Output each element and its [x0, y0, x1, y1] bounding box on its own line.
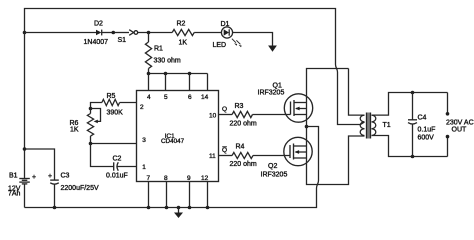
wire node branch right and down to ground bus — [307, 127, 319, 181]
transformer T1 core — [366, 113, 370, 139]
resistor R2 1K — [172, 21, 194, 47]
svg-text:C2: C2 — [113, 156, 122, 163]
svg-text:+: + — [32, 174, 36, 181]
wire IC pin 7 stub — [148, 182, 150, 208]
capacitor C3 2200uF/25V — [48, 173, 99, 210]
svg-text:D2: D2 — [94, 21, 103, 28]
node C3 tap on left rail — [23, 147, 27, 151]
svg-text:LED: LED — [213, 42, 227, 49]
svg-text:1: 1 — [142, 164, 146, 171]
wire secondary top to output top rail — [372, 93, 448, 116]
svg-text:220 ohm: 220 ohm — [230, 121, 257, 128]
svg-text:S1: S1 — [118, 37, 127, 44]
capacitor C4 0.1uF 600V — [408, 91, 435, 159]
wire IC pin 8 stub — [166, 182, 168, 208]
wire pin 10 line to R3 — [219, 114, 233, 116]
svg-text:4: 4 — [147, 94, 151, 101]
wire hop over Q2 source line — [317, 181, 319, 189]
resistor R1 330 ohm — [145, 33, 181, 74]
svg-text:IRF3205: IRF3205 — [258, 90, 285, 97]
svg-text:2200uF/25V: 2200uF/25V — [61, 185, 99, 192]
svg-text:C3: C3 — [61, 173, 70, 180]
svg-text:3: 3 — [142, 137, 146, 144]
wire LED to down arrow — [233, 33, 273, 46]
svg-text:C4: C4 — [418, 115, 427, 122]
svg-text:R2: R2 — [177, 21, 186, 28]
wire top frame from battery+ to transformer center tap — [25, 9, 336, 65]
switch S1 — [112, 30, 138, 44]
node output terminal top — [447, 93, 449, 114]
svg-text:7: 7 — [147, 175, 151, 182]
svg-text:2: 2 — [140, 104, 144, 111]
wire R4 to Q2 gate — [253, 155, 290, 157]
svg-text:R4: R4 — [236, 144, 245, 151]
svg-text:7Ah: 7Ah — [8, 191, 21, 198]
node output terminal bottom — [447, 137, 449, 157]
svg-text:Q2: Q2 — [268, 163, 277, 170]
wire junction down to C2 line — [91, 144, 114, 167]
resistor R3 220 ohm — [230, 103, 257, 128]
wire Q2 drain up to node — [306, 127, 308, 147]
node bus dots pins 4,5,6 — [147, 72, 151, 76]
svg-text:14: 14 — [201, 94, 209, 101]
wire R2 to LED — [194, 32, 221, 34]
svg-text:Q: Q — [222, 106, 227, 113]
svg-text:600V: 600V — [418, 135, 435, 142]
wire IC pin 12 stub — [207, 182, 209, 208]
resistor R5 390K — [91, 93, 137, 117]
battery B1 12V 7Ah — [8, 173, 36, 208]
wire center tap vertical down to transformer — [338, 72, 365, 125]
svg-text:0.01uF: 0.01uF — [106, 173, 128, 180]
wire rail to C3 — [25, 149, 55, 180]
svg-text:CD4047: CD4047 — [161, 138, 185, 145]
svg-text:Q: Q — [222, 147, 227, 154]
wire D2 to S1 — [102, 32, 112, 34]
svg-text:10: 10 — [209, 113, 217, 120]
svg-text:R1: R1 — [154, 46, 163, 53]
wire Q2 source to transformer primary bottom — [307, 136, 365, 185]
wire pin 11 line to R4 — [219, 155, 233, 157]
transistor Q1 IRF3205 — [258, 83, 313, 123]
svg-text:IRF3205: IRF3205 — [261, 172, 288, 179]
wire VDD bus above IC — [149, 73, 208, 75]
svg-text:R3: R3 — [235, 103, 244, 110]
wire secondary bottom to output bottom rail — [372, 136, 448, 157]
wire Q1 drain up and over to transformer primary top — [307, 69, 349, 103]
svg-text:1K: 1K — [70, 127, 79, 134]
svg-text:D1: D1 — [221, 21, 230, 28]
capacitor C2 0.01uF — [106, 156, 137, 180]
svg-text:9: 9 — [187, 175, 191, 182]
svg-text:1N4007: 1N4007 — [84, 39, 109, 46]
svg-text:6: 6 — [188, 94, 192, 101]
node battery+ rail tap — [23, 31, 27, 35]
svg-text:+: + — [48, 173, 52, 180]
svg-text:12: 12 — [201, 175, 209, 182]
wire S1 to R1/R2 node — [138, 32, 173, 34]
transistor Q2 IRF3205 — [261, 137, 313, 178]
wire Q1 source down to node — [306, 115, 308, 127]
diode D2 1N4007 — [84, 21, 109, 46]
ground symbol on bottom bus — [177, 206, 181, 210]
svg-text:11: 11 — [209, 153, 216, 160]
svg-text:R5: R5 — [107, 93, 116, 100]
LED D1 — [213, 21, 242, 49]
svg-text:T1: T1 — [383, 122, 391, 129]
wire transformer primary top — [349, 69, 365, 116]
svg-text:1K: 1K — [179, 40, 188, 47]
IC1 CD4047 box — [137, 91, 219, 182]
svg-text:5: 5 — [164, 94, 168, 101]
wire R3 to Q1 gate — [253, 114, 291, 116]
transformer T1 primary winding — [360, 115, 364, 135]
svg-text:220 ohm: 220 ohm — [230, 161, 257, 168]
node R6 bottom junction — [89, 142, 93, 146]
svg-text:B1: B1 — [9, 173, 18, 180]
wire pin 14 stub — [207, 74, 209, 91]
transformer T1 secondary winding — [372, 115, 376, 135]
svg-text:0.1uF: 0.1uF — [418, 127, 436, 134]
wire pin 5 stub — [165, 74, 167, 91]
svg-text:OUT: OUT — [452, 126, 468, 133]
node R1/R2 junction — [147, 31, 151, 35]
node Q1 source / Q2 drain junction — [305, 125, 309, 129]
wire pin 6 stub — [189, 74, 191, 91]
svg-text:390K: 390K — [107, 110, 124, 117]
ground arrow at LED return — [268, 46, 277, 52]
wire hop over drain line — [336, 65, 338, 73]
wire pin 3 line — [91, 143, 137, 145]
wire pin 4 stub — [148, 74, 150, 91]
wire main +12V rail to D2 — [25, 32, 97, 34]
svg-text:8: 8 — [164, 175, 168, 182]
wire left rail down to battery — [24, 33, 26, 179]
svg-text:330 ohm: 330 ohm — [154, 58, 181, 65]
potentiometer R6 1K — [70, 107, 101, 144]
resistor R4 220 ohm — [230, 144, 257, 169]
wire IC pin 9 stub — [189, 182, 191, 208]
